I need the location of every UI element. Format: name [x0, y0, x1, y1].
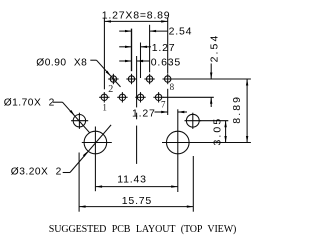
- svg-text:2.54: 2.54: [169, 26, 193, 38]
- svg-text:1.27X8=8.89: 1.27X8=8.89: [102, 9, 171, 21]
- dimension 15.75 bottom: [79, 195, 193, 208]
- pad 3: [117, 92, 127, 102]
- extension line pad7 right: [163, 96, 214, 98]
- svg-text:Ø3.20X 2: Ø3.20X 2: [11, 167, 62, 178]
- svg-text:1.27: 1.27: [132, 108, 156, 120]
- pad 7: [153, 92, 163, 102]
- pad 8: [163, 74, 173, 84]
- extension line pad1: [103, 18, 105, 90]
- extension line pad8 right: [173, 78, 251, 80]
- label dia 3.20 X2 with leader: [11, 125, 111, 178]
- mounting hole M2: [162, 109, 251, 192]
- extension line 15.75 left: [78, 153, 80, 212]
- label dia 1.70 X2 with leader: [4, 98, 90, 133]
- shield hole S2: [185, 113, 202, 129]
- svg-text:8: 8: [170, 82, 175, 92]
- dimension 1.27 top: [119, 42, 175, 54]
- extension line pad5: [140, 43, 142, 79]
- pad 6: [144, 74, 154, 84]
- svg-text:2.54: 2.54: [208, 34, 220, 63]
- extension line pad8 lower: [167, 89, 169, 115]
- label dia 0.90 X8 with leader: [36, 57, 120, 87]
- dimension 2.54 right vertical: [208, 34, 220, 107]
- svg-text:8.89: 8.89: [231, 95, 243, 124]
- dimension 1.27 bottom: [132, 108, 187, 120]
- svg-text:3.05: 3.05: [212, 117, 224, 146]
- svg-text:Ø1.70X 2: Ø1.70X 2: [4, 98, 55, 109]
- svg-text:Ø0.90 X8: Ø0.90 X8: [36, 57, 87, 68]
- dimension 2.54 top: [119, 26, 192, 38]
- extension line 15.75 right: [192, 156, 194, 212]
- extension line shield right: [199, 120, 228, 122]
- dimension 11.43 bottom: [96, 173, 178, 188]
- svg-text:1.27: 1.27: [152, 42, 176, 54]
- extension line pad8 top: [167, 18, 169, 74]
- svg-text:0.635: 0.635: [151, 57, 181, 69]
- extension line pad6: [149, 25, 151, 73]
- svg-text:7: 7: [161, 100, 166, 110]
- pad 2: [108, 74, 118, 84]
- svg-text:15.75: 15.75: [122, 195, 152, 207]
- shield hole S1: [71, 113, 88, 129]
- dimension 0.635: [119, 57, 181, 69]
- dimension 1.27X8=8.89: [102, 9, 171, 22]
- dimension 3.05 right vertical: [212, 117, 227, 146]
- mounting hole M1: [82, 127, 112, 192]
- svg-text:SUGGESTED PCB LAYOUT (TOP VIEW: SUGGESTED PCB LAYOUT (TOP VIEW): [49, 224, 236, 235]
- dimension 8.89 right vertical: [231, 79, 249, 143]
- pad 4: [126, 74, 136, 84]
- centerline: [136, 56, 138, 164]
- pad 1: [99, 92, 109, 102]
- svg-text:2: 2: [108, 84, 113, 95]
- svg-text:11.43: 11.43: [117, 173, 147, 185]
- pad 5: [135, 92, 145, 102]
- extension line pad4: [131, 29, 133, 72]
- svg-text:1: 1: [102, 103, 107, 113]
